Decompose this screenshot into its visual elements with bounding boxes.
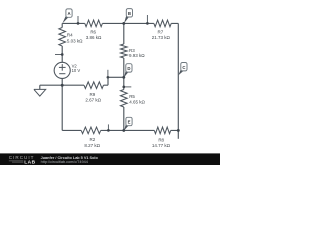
svg-text:3.86 kΩ: 3.86 kΩ [86, 35, 102, 40]
svg-text:4.65 kΩ: 4.65 kΩ [129, 99, 145, 104]
svg-text:LAB: LAB [24, 160, 35, 165]
svg-text:2.67 kΩ: 2.67 kΩ [85, 98, 101, 103]
svg-text:C: C [182, 65, 185, 70]
svg-text:8.27 kΩ: 8.27 kΩ [84, 143, 100, 148]
svg-text:A: A [67, 11, 70, 16]
svg-text:D: D [127, 66, 130, 71]
svg-text:CIRCUIT: CIRCUIT [9, 155, 35, 160]
svg-text:21.73 kΩ: 21.73 kΩ [152, 35, 171, 40]
svg-text:E: E [128, 120, 131, 125]
svg-text:10 V: 10 V [72, 68, 81, 73]
svg-text:R6: R6 [90, 30, 96, 35]
svg-text:R4: R4 [67, 33, 73, 38]
svg-text:14.77 kΩ: 14.77 kΩ [152, 143, 171, 148]
svg-text:http://circuitlab.com/c/74944: http://circuitlab.com/c/74944 [41, 160, 88, 164]
svg-text:R7: R7 [158, 30, 164, 35]
svg-text:R8: R8 [158, 137, 164, 142]
svg-text:9.93 kΩ: 9.93 kΩ [129, 53, 145, 58]
svg-text:R9: R9 [90, 92, 96, 97]
svg-text:B: B [128, 11, 131, 16]
svg-text:5.03 kΩ: 5.03 kΩ [67, 39, 83, 44]
svg-text:R2: R2 [90, 137, 96, 142]
